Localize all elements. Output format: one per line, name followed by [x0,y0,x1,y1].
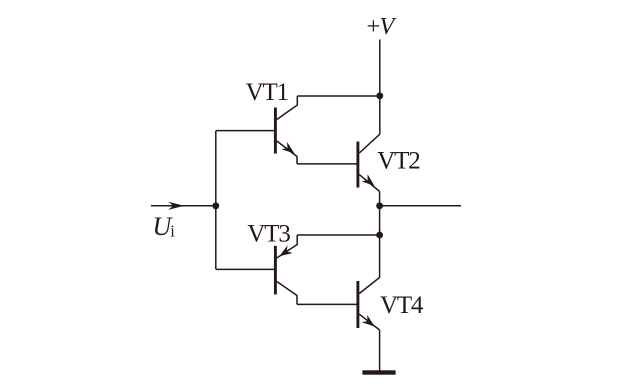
wire: +V supply drop [379,40,381,135]
svg-text:VT1: VT1 [246,79,288,106]
transistor VT3 (PNP) [275,235,297,304]
wire: VT3 base wire [216,268,276,270]
node: collector supply junction [376,92,383,99]
ground [362,370,395,374]
transistor VT1 (NPN) [275,96,297,164]
svg-text:Ui: Ui [153,212,176,241]
node: VT3 emitter junction [376,232,383,239]
wire: right vertical spine (VT2 emitter to VT4 collector) [379,192,381,278]
wire: VT1 base wire [216,130,276,132]
wire: VT4 emitter to ground [379,330,381,371]
wire: VT3 emitter rail [297,234,379,236]
wire: VT1 collector rail to top node [297,95,380,97]
wire: input lead [151,205,216,207]
svg-text:VT4: VT4 [380,292,424,319]
wire: output lead [380,205,461,207]
node: output junction [376,202,383,209]
svg-text:+V: +V [367,13,398,40]
input signal arrowhead [168,202,184,210]
node: input junction [212,202,219,209]
svg-text:VT3: VT3 [247,221,290,248]
wire: left vertical spine (VT1 base to VT3 base) [215,131,217,270]
wire: VT1 emitter to VT2 base rail [297,163,357,165]
transistor VT4 (NPN) [358,278,380,331]
svg-text:VT2: VT2 [377,148,420,175]
transistor VT2 (NPN) [358,134,380,191]
wire: VT3 collector to VT4 base rail [297,303,357,305]
